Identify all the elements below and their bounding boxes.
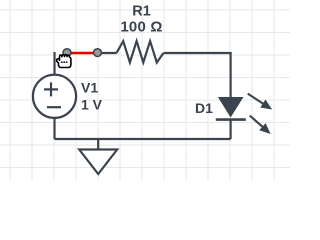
voltage source V1 xyxy=(33,75,76,118)
wire red selected segment xyxy=(67,52,98,54)
LED D1 xyxy=(216,94,272,134)
node A (red wire left end) xyxy=(63,49,71,57)
wire bottom rail xyxy=(55,138,231,140)
wire node B to resistor xyxy=(98,52,117,54)
resistor R1 xyxy=(117,41,164,62)
svg-text:V1: V1 xyxy=(81,80,98,96)
wire LED bottom lead xyxy=(230,120,232,139)
wire V1 top lead xyxy=(53,52,55,75)
node B (red wire right end) xyxy=(94,49,102,57)
svg-text:100 Ω: 100 Ω xyxy=(120,19,162,36)
ground xyxy=(79,139,117,174)
grab-hand cursor xyxy=(57,55,71,68)
svg-text:1 V: 1 V xyxy=(81,96,103,112)
svg-text:R1: R1 xyxy=(132,4,151,20)
wire resistor to LED top corner xyxy=(164,53,231,97)
grid (decorative) xyxy=(0,0,290,180)
wire V1 bottom lead xyxy=(53,117,55,139)
svg-text:D1: D1 xyxy=(195,100,213,116)
